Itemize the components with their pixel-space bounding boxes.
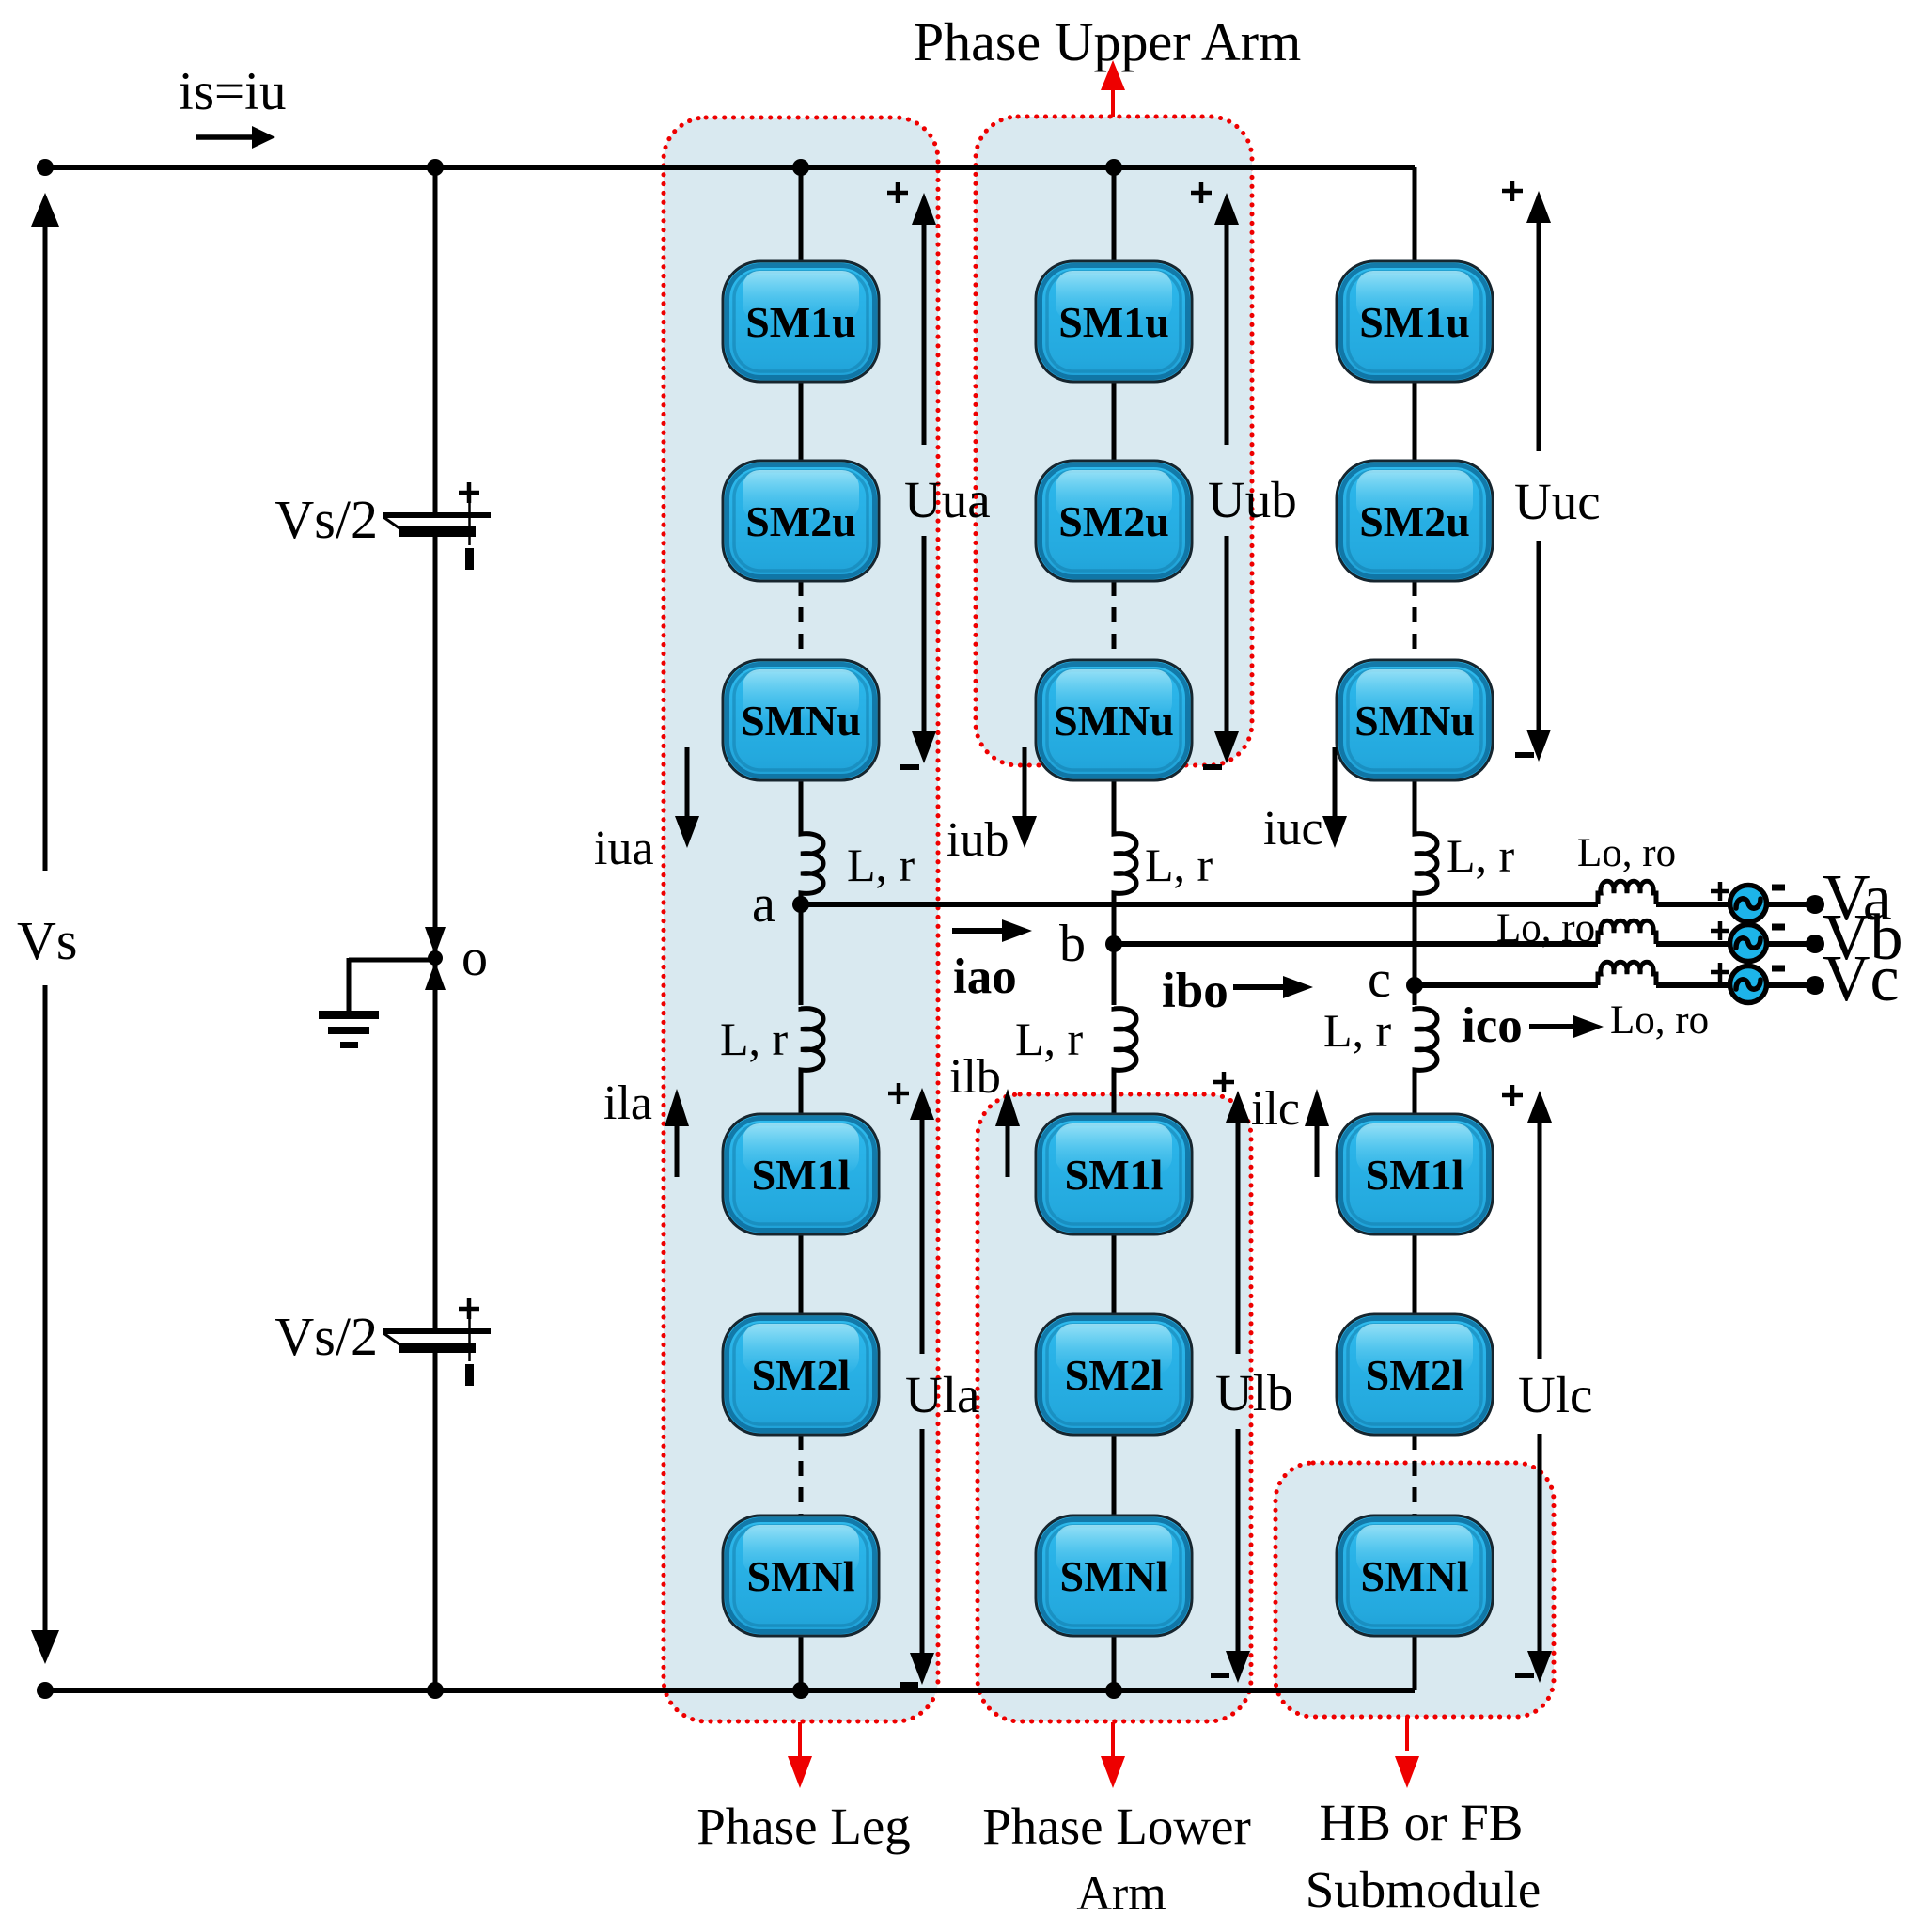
svg-text:Lo, ro: Lo, ro — [1577, 831, 1676, 875]
svg-text:SMNu: SMNu — [1054, 697, 1174, 745]
svg-text:Phase Upper Arm: Phase Upper Arm — [914, 11, 1301, 72]
svg-text:SM1l: SM1l — [1366, 1151, 1464, 1199]
svg-text:SM1u: SM1u — [1359, 298, 1470, 346]
svg-text:Submodule: Submodule — [1306, 1861, 1541, 1918]
svg-text:Phase Leg: Phase Leg — [696, 1798, 911, 1855]
svg-text:iub: iub — [947, 813, 1009, 867]
svg-text:L, r: L, r — [720, 1013, 789, 1065]
svg-text:ico: ico — [1462, 998, 1523, 1053]
svg-text:SM1u: SM1u — [1058, 298, 1169, 346]
svg-text:SMNl: SMNl — [1060, 1552, 1168, 1600]
svg-text:Vc: Vc — [1823, 943, 1900, 1015]
svg-text:ilc: ilc — [1251, 1082, 1300, 1136]
svg-text:o: o — [462, 929, 488, 987]
svg-text:Vs/2: Vs/2 — [274, 1306, 378, 1367]
svg-text:ibo: ibo — [1162, 964, 1228, 1018]
svg-text:iao: iao — [953, 950, 1017, 1004]
svg-text:Lo, ro: Lo, ro — [1610, 998, 1709, 1043]
svg-text:HB or FB: HB or FB — [1320, 1794, 1524, 1851]
svg-text:iuc: iuc — [1263, 802, 1323, 856]
svg-text:a: a — [752, 875, 775, 934]
svg-text:SMNl: SMNl — [747, 1552, 855, 1600]
svg-text:SMNu: SMNu — [1354, 697, 1475, 745]
svg-text:SM2l: SM2l — [752, 1351, 851, 1399]
svg-text:L, r: L, r — [1447, 829, 1515, 882]
svg-text:iua: iua — [594, 822, 654, 875]
svg-text:ilb: ilb — [949, 1050, 1001, 1104]
svg-text:c: c — [1368, 950, 1391, 1009]
svg-text:L, r: L, r — [1015, 1013, 1084, 1065]
svg-text:Vs: Vs — [17, 910, 77, 971]
svg-text:Ulc: Ulc — [1518, 1366, 1592, 1423]
svg-text:SM2u: SM2u — [745, 497, 856, 545]
svg-text:ila: ila — [603, 1076, 652, 1130]
svg-text:L, r: L, r — [1323, 1004, 1392, 1057]
svg-text:Arm: Arm — [1076, 1867, 1166, 1921]
svg-text:SMNl: SMNl — [1361, 1552, 1469, 1600]
svg-text:Uuc: Uuc — [1514, 473, 1601, 530]
svg-text:Ulb: Ulb — [1215, 1364, 1293, 1422]
svg-text:Phase Lower: Phase Lower — [982, 1798, 1251, 1855]
svg-text:Uua: Uua — [904, 471, 991, 528]
svg-text:SM1l: SM1l — [752, 1151, 851, 1199]
svg-text:SM2u: SM2u — [1058, 497, 1169, 545]
svg-text:SMNu: SMNu — [741, 697, 861, 745]
svg-text:SM1u: SM1u — [745, 298, 856, 346]
svg-text:is=iu: is=iu — [179, 62, 287, 121]
svg-text:Lo, ro: Lo, ro — [1496, 906, 1595, 950]
svg-text:SM2u: SM2u — [1359, 497, 1470, 545]
svg-text:SM1l: SM1l — [1065, 1151, 1164, 1199]
svg-text:Vs/2: Vs/2 — [274, 489, 378, 550]
svg-text:SM2l: SM2l — [1065, 1351, 1164, 1399]
svg-text:Ula: Ula — [905, 1366, 979, 1423]
svg-text:L, r: L, r — [1145, 839, 1213, 891]
svg-text:L, r: L, r — [847, 839, 915, 891]
svg-text:SM2l: SM2l — [1366, 1351, 1464, 1399]
svg-text:Uub: Uub — [1208, 471, 1297, 528]
svg-text:b: b — [1059, 915, 1086, 973]
